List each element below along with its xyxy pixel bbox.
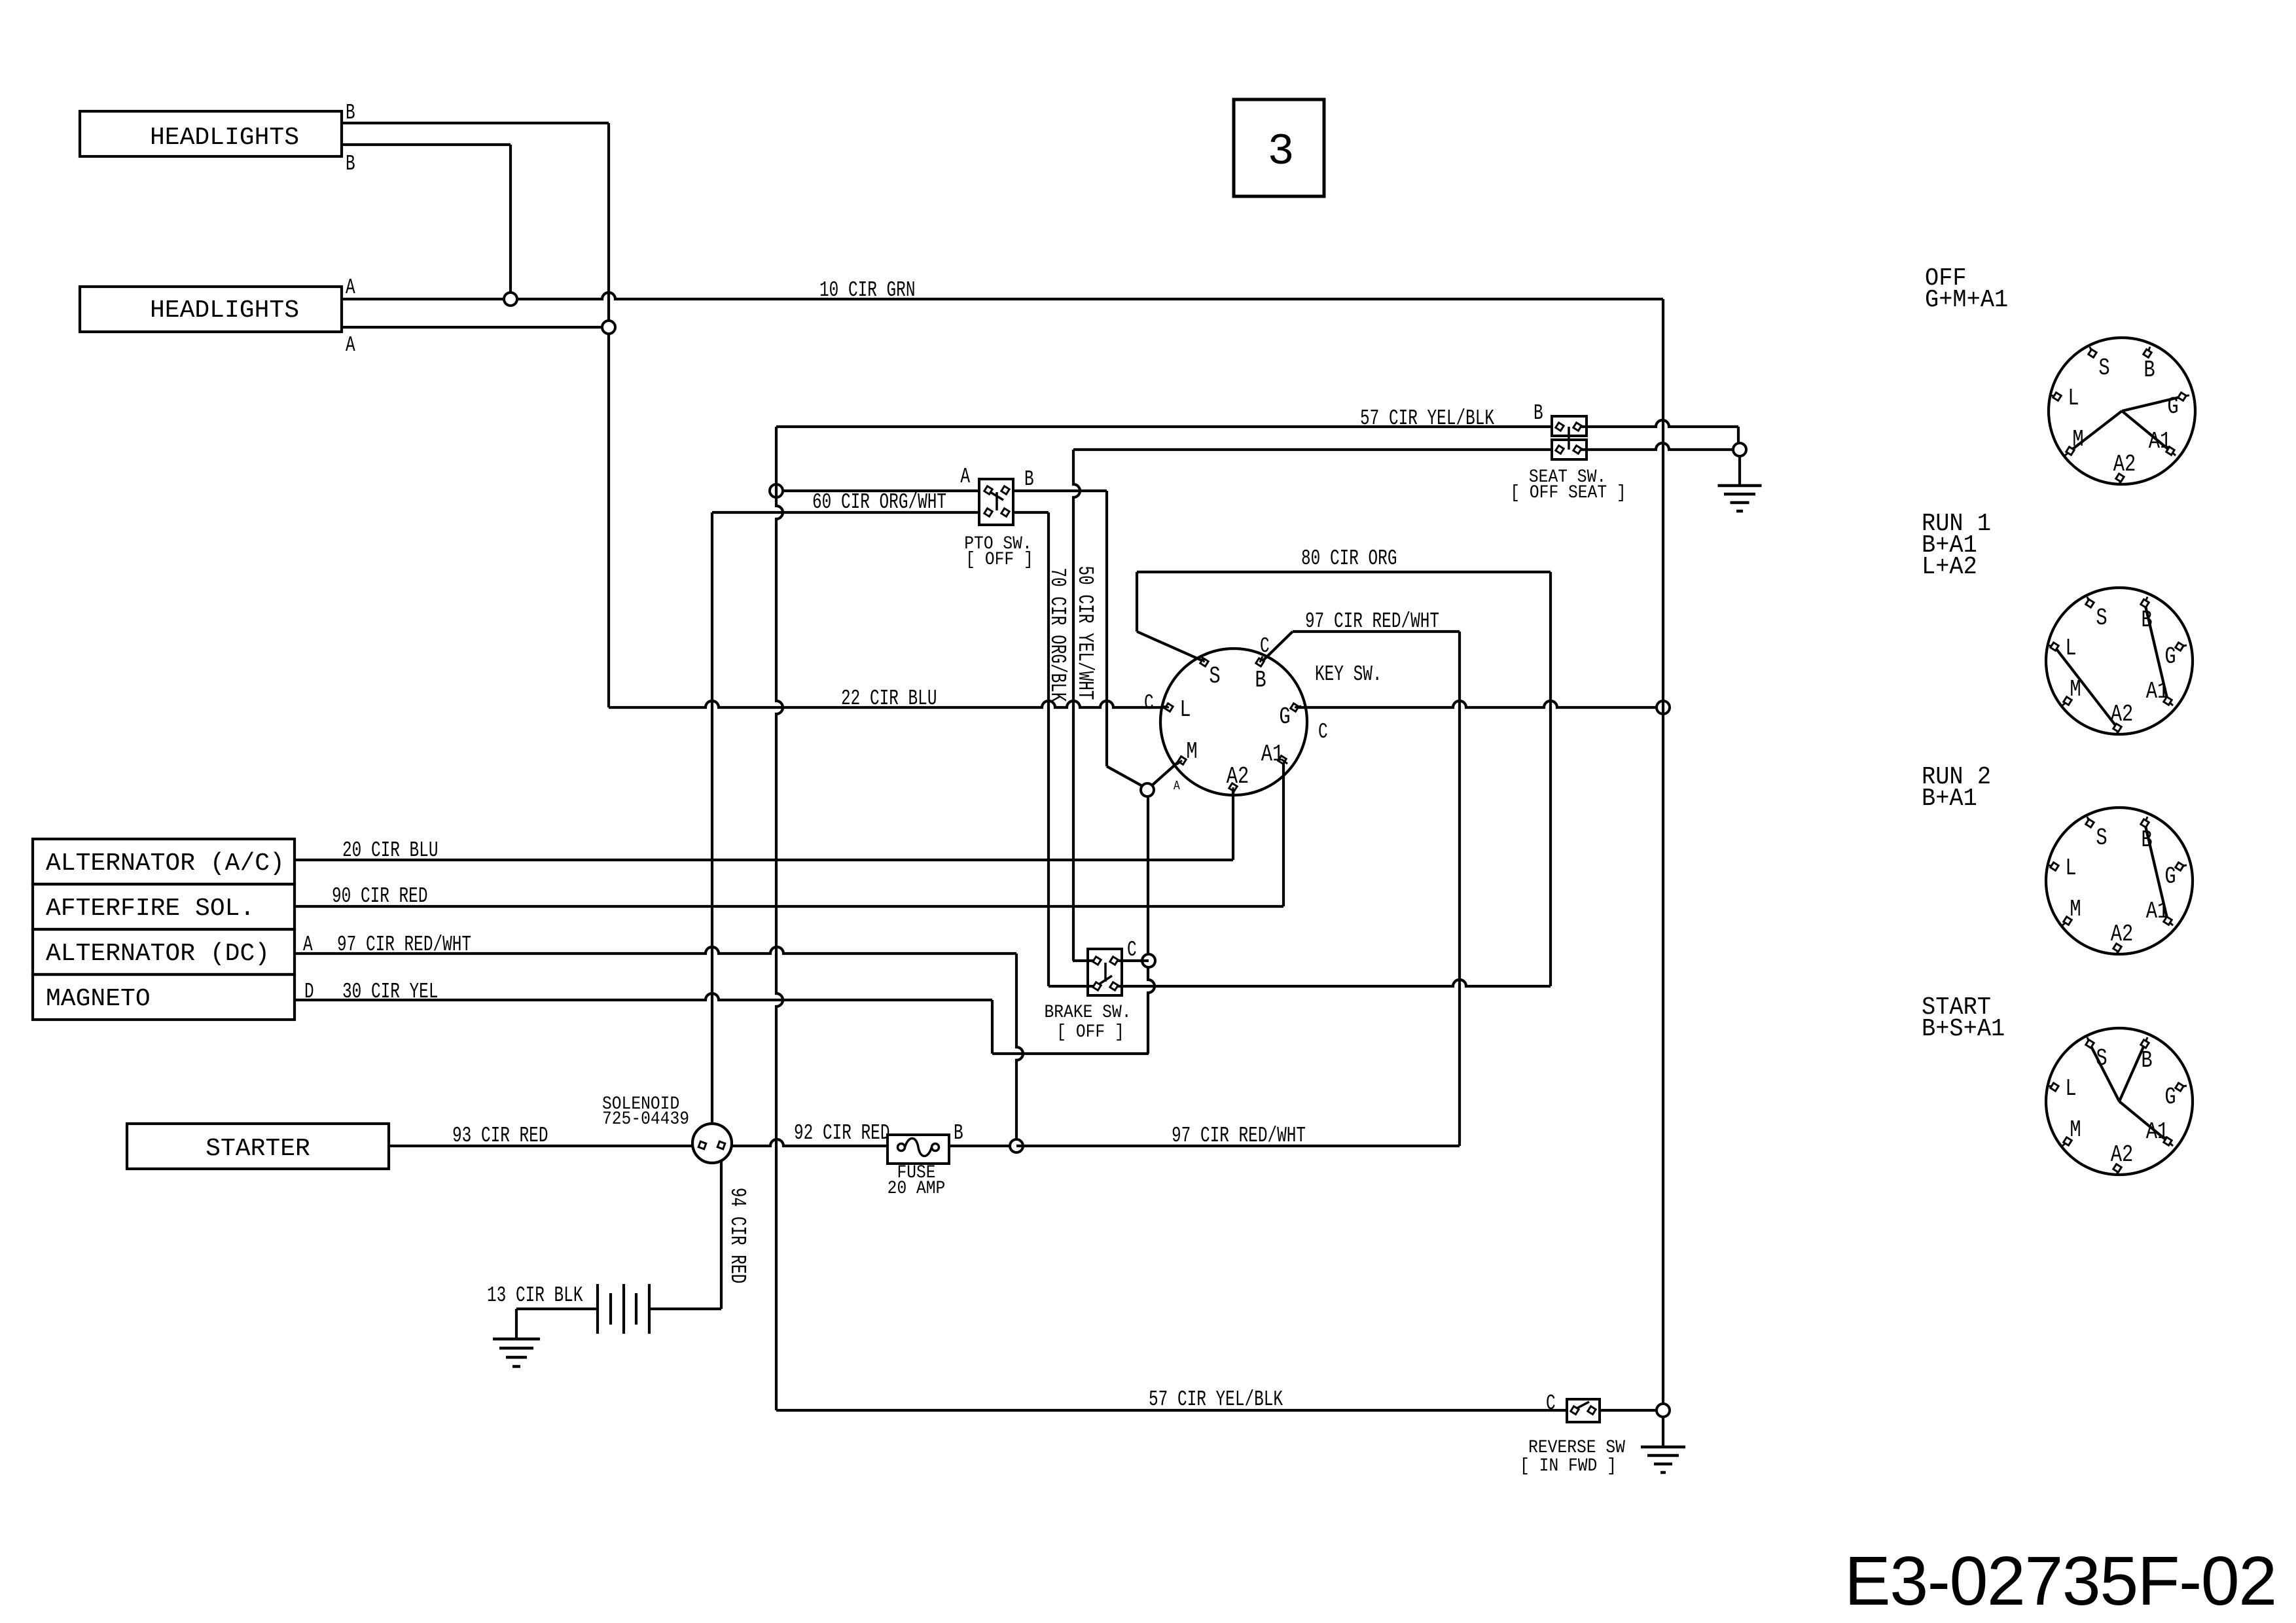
- svg-text:G: G: [2164, 643, 2176, 670]
- svg-text:C: C: [1144, 691, 1154, 716]
- svg-text:ALTERNATOR (DC): ALTERNATOR (DC): [46, 940, 270, 968]
- svg-text:B: B: [2144, 357, 2155, 383]
- svg-text:ALTERNATOR (A/C): ALTERNATOR (A/C): [46, 849, 285, 878]
- wire: A2 drop: [1232, 791, 1234, 860]
- seat switch terminal LR: [1573, 446, 1581, 454]
- svg-text:30 CIR YEL: 30 CIR YEL: [342, 980, 438, 1005]
- wire: M junction down to brake switch: [1148, 796, 1155, 1054]
- wire 93 CIR RED (starter to solenoid): [389, 1145, 692, 1147]
- svg-text:A2: A2: [2113, 451, 2136, 478]
- brake terminal TL: [1093, 957, 1101, 965]
- wire: battery ground drop: [515, 1309, 518, 1339]
- svg-text:G: G: [2164, 863, 2176, 890]
- key switch circle: [1160, 649, 1307, 795]
- svg-text:C: C: [1260, 634, 1270, 659]
- svg-text:57 CIR YEL/BLK: 57 CIR YEL/BLK: [1360, 406, 1495, 431]
- wire label 80 CIR ORG: [1301, 546, 1397, 571]
- svg-text:20 CIR BLU: 20 CIR BLU: [342, 838, 438, 863]
- svg-text:C: C: [1546, 1391, 1556, 1416]
- label REVERSE SW: [1528, 1437, 1625, 1458]
- label SEAT SW.: [1529, 467, 1606, 488]
- wire: 70 CIR ORG/BLK into brake BL: [1049, 985, 1094, 988]
- wire 30 CIR YEL (magneto): [295, 993, 992, 1000]
- key switch terminal G: [1291, 704, 1301, 711]
- svg-text:3: 3: [1268, 127, 1295, 177]
- key switch letter L: [1179, 696, 1191, 723]
- wire: seat switch lower right to ground junction: [1577, 443, 1733, 450]
- pin label B (PTO): [1024, 467, 1034, 492]
- svg-text:B: B: [2141, 827, 2152, 853]
- svg-text:MAGNETO: MAGNETO: [46, 985, 151, 1013]
- seat switch upper box: [1552, 416, 1587, 436]
- svg-text:S: S: [2096, 605, 2107, 632]
- key switch letter G: [1279, 704, 1290, 730]
- label [ OFF ] (PTO): [965, 549, 1033, 570]
- svg-text:B: B: [2141, 1047, 2152, 1074]
- node: junction G wire / 10 CIR GRN bus: [1657, 701, 1670, 714]
- label L+A2 (position RUN 1): [1922, 553, 1977, 581]
- component box: magneto: [33, 974, 295, 1020]
- node: junction 60 CIR ORG/WHT on 57 bus: [770, 484, 783, 497]
- svg-text:S: S: [2098, 355, 2109, 382]
- svg-text:A2: A2: [2111, 921, 2134, 948]
- reverse terminal left: [1571, 1406, 1579, 1414]
- wire: headlight B lower (pin B): [342, 143, 511, 146]
- label B+S+A1 (position START): [1922, 1015, 2005, 1043]
- pin label A (lower headlight top): [346, 276, 355, 300]
- wire: 80 CIR ORG drop to S: [1137, 572, 1202, 660]
- wire 70 CIR ORG/BLK vertical: [1047, 512, 1050, 986]
- svg-text:B: B: [1255, 667, 1266, 694]
- wire: seat switch upper right to ground drop: [1577, 420, 1738, 427]
- wire 90 CIR RED (afterfire to A1): [295, 905, 1283, 908]
- wire 50 CIR YEL/WHT vertical: [1073, 450, 1080, 961]
- svg-text:A1: A1: [2146, 1118, 2169, 1145]
- wire: 97 drop to fuse junction: [1016, 954, 1023, 1146]
- seat switch terminal LL: [1556, 446, 1564, 454]
- svg-text:B: B: [1024, 467, 1034, 492]
- wire label 97 CIR RED/WHT (alternator DC): [337, 933, 471, 957]
- svg-text:97 CIR RED/WHT: 97 CIR RED/WHT: [1305, 609, 1439, 634]
- pin label A (lower headlight bottom): [346, 333, 355, 358]
- label 725-04439: [602, 1109, 689, 1130]
- seat switch pole link: [1568, 427, 1570, 450]
- wire: 97 riser to key switch B: [1458, 632, 1461, 1146]
- wire 13 CIR BLK (battery to ground): [516, 1308, 598, 1310]
- svg-text:B: B: [1534, 401, 1543, 426]
- wire label 90 CIR RED: [332, 884, 427, 909]
- label OFF (position OFF): [1925, 264, 1967, 293]
- seat switch terminal UR: [1573, 423, 1581, 431]
- svg-text:E3-02735F-02: E3-02735F-02: [1844, 1543, 2276, 1620]
- node: junction at key switch M: [1141, 783, 1154, 796]
- svg-text:D: D: [304, 980, 314, 1005]
- svg-text:A: A: [346, 333, 355, 358]
- svg-text:C: C: [1127, 938, 1137, 963]
- brake terminal BR: [1110, 982, 1118, 990]
- wire: M terminal diagonal: [1151, 760, 1181, 786]
- svg-text:M: M: [2070, 676, 2081, 703]
- label [ OFF SEAT ]: [1510, 482, 1626, 503]
- pin label C (key switch L): [1144, 691, 1154, 716]
- svg-text:[ OFF SEAT ]: [ OFF SEAT ]: [1510, 482, 1626, 503]
- ground symbol (battery): [493, 1339, 540, 1366]
- svg-text:A: A: [960, 465, 970, 490]
- svg-text:57 CIR YEL/BLK: 57 CIR YEL/BLK: [1149, 1387, 1283, 1412]
- brake switch pole link: [1104, 963, 1107, 982]
- svg-text:HEADLIGHTS: HEADLIGHTS: [150, 124, 299, 152]
- svg-text:[ OFF ]: [ OFF ]: [1056, 1022, 1124, 1043]
- wire: 10 CIR GRN drop to G junction: [1662, 299, 1664, 707]
- svg-text:A1: A1: [2146, 898, 2169, 925]
- svg-text:B: B: [346, 101, 355, 126]
- svg-text:M: M: [2070, 896, 2081, 923]
- svg-text:[ OFF ]: [ OFF ]: [965, 549, 1033, 570]
- wire: G junction down to reverse switch: [1662, 707, 1664, 1410]
- PTO switch box: [979, 479, 1013, 525]
- wire: seat ground drop: [1738, 456, 1741, 486]
- svg-text:13 CIR BLK: 13 CIR BLK: [487, 1283, 583, 1308]
- PTO terminal lower-left: [984, 508, 992, 516]
- svg-text:HEADLIGHTS: HEADLIGHTS: [150, 296, 299, 325]
- key position diagram RUN 1: [2046, 588, 2193, 735]
- svg-text:L: L: [1179, 696, 1191, 723]
- wire label 57 CIR YEL/BLK (bottom): [1149, 1387, 1283, 1412]
- node: junction brake switch C: [1142, 954, 1155, 967]
- PTO switch pole link: [996, 492, 998, 510]
- key switch terminal B: [1256, 656, 1264, 666]
- component box: headlights (upper): [80, 111, 342, 156]
- wire: PTO lower input: [712, 511, 979, 514]
- key switch letter S: [1209, 663, 1220, 690]
- PTO terminal B: [1001, 486, 1009, 494]
- svg-text:STARTER: STARTER: [206, 1135, 310, 1163]
- svg-text:B+A1: B+A1: [1922, 785, 1977, 813]
- svg-text:70 CIR ORG/BLK: 70 CIR ORG/BLK: [1045, 567, 1070, 702]
- pin label A (alternator DC): [303, 933, 313, 957]
- wire: reverse ground drop: [1662, 1417, 1664, 1447]
- ground symbol (seat switch): [1718, 486, 1762, 511]
- wire 57 CIR YEL/BLK (top run to seat switch): [776, 425, 1552, 428]
- wire label 30 CIR YEL: [342, 980, 438, 1005]
- label B+A1 (position RUN 2): [1922, 785, 1977, 813]
- svg-text:B: B: [2141, 607, 2152, 633]
- label RUN 2 (position RUN 2): [1922, 763, 1991, 791]
- reverse switch lever: [1577, 1402, 1589, 1408]
- component box: alternator (DC): [33, 929, 295, 974]
- wire: battery positive link: [649, 1308, 721, 1310]
- wire: key switch G to junction: [1299, 701, 1663, 707]
- wire 57 CIR YEL/BLK (bottom run): [776, 1409, 1567, 1412]
- seat switch terminal UL: [1556, 423, 1564, 431]
- brake switch box: [1088, 949, 1122, 995]
- svg-text:M: M: [2072, 426, 2083, 453]
- wire: reverse switch to ground junction: [1600, 1409, 1663, 1412]
- node: junction reverse switch ground: [1657, 1404, 1670, 1417]
- label FUSE: [897, 1162, 935, 1183]
- label START (position START): [1922, 993, 1991, 1022]
- brake terminal TR: [1110, 957, 1118, 965]
- wire: fuse to junction: [949, 1145, 1016, 1147]
- wire: seat switch lower left run: [1073, 448, 1552, 451]
- pin label B (seat switch): [1534, 401, 1543, 426]
- wire: PTO B drop to key switch M: [1105, 491, 1108, 766]
- svg-text:A1: A1: [2149, 428, 2172, 455]
- svg-text:10 CIR GRN: 10 CIR GRN: [819, 278, 915, 303]
- wire: headlight A lower: [342, 326, 609, 329]
- reverse switch box: [1567, 1399, 1600, 1422]
- sheet number box 3: [1234, 99, 1324, 196]
- pin label C (brake switch): [1127, 938, 1137, 963]
- svg-text:M: M: [1186, 738, 1197, 765]
- svg-text:BRAKE SW.: BRAKE SW.: [1044, 1002, 1131, 1023]
- key switch letter A2: [1227, 763, 1249, 790]
- wire: PTO lower feed to solenoid: [711, 512, 713, 1124]
- svg-text:A: A: [1174, 779, 1180, 794]
- svg-text:97 CIR RED/WHT: 97 CIR RED/WHT: [1172, 1124, 1306, 1149]
- wire 20 CIR BLU (alternator A/C to A2): [295, 859, 1233, 861]
- wire: vertical from headlight B lower: [509, 145, 512, 299]
- pin label B (upper headlight bottom): [346, 152, 355, 177]
- svg-text:G: G: [1279, 704, 1290, 730]
- ground symbol (reverse switch): [1641, 1447, 1685, 1472]
- wire: 30 CIR YEL drop: [991, 1000, 994, 1054]
- key switch terminal L: [1162, 704, 1173, 711]
- wire: A1 drop: [1282, 762, 1285, 906]
- wire: diagonal into M junction: [1107, 766, 1143, 787]
- svg-text:C: C: [1318, 720, 1328, 745]
- wire: PTO lower output to 70 CIR ORG/BLK: [1013, 511, 1049, 514]
- svg-text:50 CIR YEL/WHT: 50 CIR YEL/WHT: [1073, 565, 1098, 700]
- PTO terminal A: [984, 486, 992, 494]
- svg-text:22 CIR BLU: 22 CIR BLU: [841, 687, 937, 711]
- svg-text:B: B: [346, 152, 355, 177]
- wire 22 CIR BLU (to key switch L): [609, 701, 1166, 707]
- PTO switch lever: [990, 492, 1003, 500]
- wire: link to brake switch common: [992, 1052, 1149, 1055]
- svg-text:20 AMP: 20 AMP: [888, 1178, 946, 1199]
- svg-text:S: S: [2096, 1045, 2107, 1072]
- wire label 92 CIR RED: [794, 1121, 889, 1146]
- key position diagram OFF: [2049, 338, 2195, 485]
- wire label 70 CIR ORG/BLK (vertical): [1045, 567, 1070, 702]
- battery plates: [598, 1284, 649, 1334]
- solenoid pin right: [717, 1141, 725, 1149]
- wire label 97 CIR RED/WHT (bottom): [1172, 1124, 1306, 1149]
- component box: alternator (A/C): [33, 839, 295, 884]
- key switch terminal A2: [1229, 783, 1237, 794]
- pin label A (PTO): [960, 465, 970, 490]
- svg-text:725-04439: 725-04439: [602, 1109, 689, 1130]
- svg-text:L: L: [2068, 385, 2079, 412]
- svg-text:B: B: [954, 1121, 963, 1146]
- wire: corner drop seat upper wire: [1737, 427, 1740, 450]
- wire: brake BR to 80 CIR ORG drop: [1117, 980, 1551, 986]
- wire label 20 CIR BLU: [342, 838, 438, 863]
- svg-text:S: S: [2096, 825, 2107, 851]
- svg-text:A: A: [346, 276, 355, 300]
- reverse terminal right: [1588, 1406, 1596, 1414]
- node: junction headlight B/10 CIR GRN: [504, 293, 517, 306]
- svg-text:M: M: [2070, 1116, 2081, 1143]
- svg-text:[ IN FWD ]: [ IN FWD ]: [1520, 1455, 1617, 1476]
- wire label 10 CIR GRN: [819, 278, 915, 303]
- wire 60 CIR ORG/WHT (to PTO A): [776, 490, 979, 492]
- key switch terminal A1: [1278, 756, 1287, 764]
- svg-text:G+M+A1: G+M+A1: [1925, 286, 2008, 314]
- wire label 13 CIR BLK: [487, 1283, 583, 1308]
- solenoid pin left: [698, 1141, 706, 1149]
- key switch terminal M: [1177, 757, 1186, 764]
- pin label A (key switch M junction): [1174, 779, 1180, 794]
- svg-text:L: L: [2065, 1075, 2076, 1102]
- brake switch lever: [1099, 976, 1112, 984]
- svg-text:G: G: [2167, 393, 2178, 420]
- component box: afterfire sol.: [33, 884, 295, 929]
- svg-text:KEY SW.: KEY SW.: [1315, 662, 1382, 687]
- svg-text:94 CIR RED: 94 CIR RED: [725, 1188, 750, 1283]
- key position diagram START: [2046, 1028, 2193, 1175]
- label RUN 1 (position RUN 1): [1922, 510, 1991, 538]
- key switch letter A1: [1261, 741, 1284, 768]
- wire 57 CIR YEL/BLK vertical bus: [776, 427, 783, 1410]
- svg-text:S: S: [1209, 663, 1220, 690]
- pin label C (key switch G): [1318, 720, 1328, 745]
- label [ OFF ] (brake): [1056, 1022, 1124, 1043]
- key switch terminal S: [1200, 656, 1208, 666]
- label [ IN FWD ]: [1520, 1455, 1617, 1476]
- svg-text:AFTERFIRE SOL.: AFTERFIRE SOL.: [46, 895, 255, 923]
- wire: headlight B upper (pin B): [342, 122, 609, 124]
- svg-text:60 CIR ORG/WHT: 60 CIR ORG/WHT: [812, 490, 946, 515]
- fuse element: [898, 1139, 939, 1156]
- wire: 80 CIR ORG riser: [1549, 572, 1552, 986]
- component box: starter: [127, 1124, 389, 1169]
- svg-text:A: A: [303, 933, 313, 957]
- wire: brake TR to junction: [1117, 959, 1149, 962]
- wire label 57 CIR YEL/BLK (top): [1360, 406, 1495, 431]
- wire 10 CIR GRN (headlight A to key switch area): [342, 293, 1663, 299]
- label SOLENOID: [602, 1094, 679, 1115]
- svg-text:92 CIR RED: 92 CIR RED: [794, 1121, 889, 1146]
- svg-text:A2: A2: [2111, 1141, 2134, 1168]
- wire 97 CIR RED/WHT (B terminal run): [1263, 632, 1460, 660]
- wire label 22 CIR BLU: [841, 687, 937, 711]
- svg-text:80 CIR ORG: 80 CIR ORG: [1301, 546, 1397, 571]
- PTO terminal lower-right: [1001, 508, 1009, 516]
- wire 80 CIR ORG (S terminal run): [1137, 571, 1551, 573]
- key switch letter M: [1186, 738, 1197, 765]
- svg-text:A1: A1: [2146, 678, 2169, 705]
- svg-text:A1: A1: [1261, 741, 1284, 768]
- wire label 60 CIR ORG/WHT: [812, 490, 946, 515]
- pin label B (upper headlight top): [346, 101, 355, 126]
- wire 97 CIR RED/WHT (alternator DC): [295, 947, 1016, 954]
- svg-text:L+A2: L+A2: [1922, 553, 1977, 581]
- node: junction headlight A lower: [602, 321, 615, 334]
- wire label 50 CIR YEL/WHT (vertical): [1073, 565, 1098, 700]
- label G+M+A1 (position OFF): [1925, 286, 2008, 314]
- node: junction 92/97 CIR RED: [1010, 1139, 1023, 1152]
- drawing number E3-02735F-02: [1844, 1543, 2276, 1620]
- brake terminal BL: [1093, 982, 1101, 990]
- pin label B (fuse): [954, 1121, 963, 1146]
- label 20 AMP: [888, 1178, 946, 1199]
- solenoid circle: [692, 1124, 732, 1163]
- pin label C (key switch B): [1260, 634, 1270, 659]
- node: junction at seat switch ground: [1733, 443, 1746, 456]
- label BRAKE SW.: [1044, 1002, 1131, 1023]
- wire: PTO B output: [1013, 490, 1107, 492]
- label KEY SW.: [1315, 662, 1382, 687]
- wire label 94 CIR RED (vertical): [725, 1188, 750, 1283]
- wire 92 CIR RED (solenoid to fuse): [732, 1139, 888, 1146]
- key switch letter B: [1255, 667, 1266, 694]
- pin label D (magneto): [304, 980, 314, 1005]
- svg-text:B+S+A1: B+S+A1: [1922, 1015, 2005, 1043]
- pin label C (reverse switch): [1546, 1391, 1556, 1416]
- key position diagram RUN 2: [2046, 808, 2193, 955]
- svg-text:L: L: [2065, 635, 2076, 662]
- svg-text:90 CIR RED: 90 CIR RED: [332, 884, 427, 909]
- fuse box: [888, 1135, 949, 1164]
- svg-text:93 CIR RED: 93 CIR RED: [452, 1124, 548, 1149]
- svg-text:A2: A2: [1227, 763, 1249, 790]
- wire label 97 CIR RED/WHT (key switch): [1305, 609, 1439, 634]
- svg-text:A2: A2: [2111, 701, 2134, 728]
- svg-text:97 CIR RED/WHT: 97 CIR RED/WHT: [337, 933, 471, 957]
- svg-text:G: G: [2164, 1084, 2176, 1111]
- wire: 50 CIR YEL/WHT into brake TL: [1073, 959, 1094, 962]
- component box: headlights (lower): [80, 287, 342, 332]
- wire label 93 CIR RED: [452, 1124, 548, 1149]
- label PTO SW.: [964, 533, 1031, 554]
- svg-text:L: L: [2065, 855, 2076, 882]
- wire 94 CIR RED (solenoid to battery): [720, 1160, 723, 1309]
- seat switch lower box: [1552, 440, 1587, 459]
- label B+A1 (position RUN 1): [1922, 531, 1977, 560]
- wire 97 CIR RED/WHT (bottom run): [1016, 1145, 1460, 1147]
- wire: vertical headlight B bus: [607, 123, 610, 707]
